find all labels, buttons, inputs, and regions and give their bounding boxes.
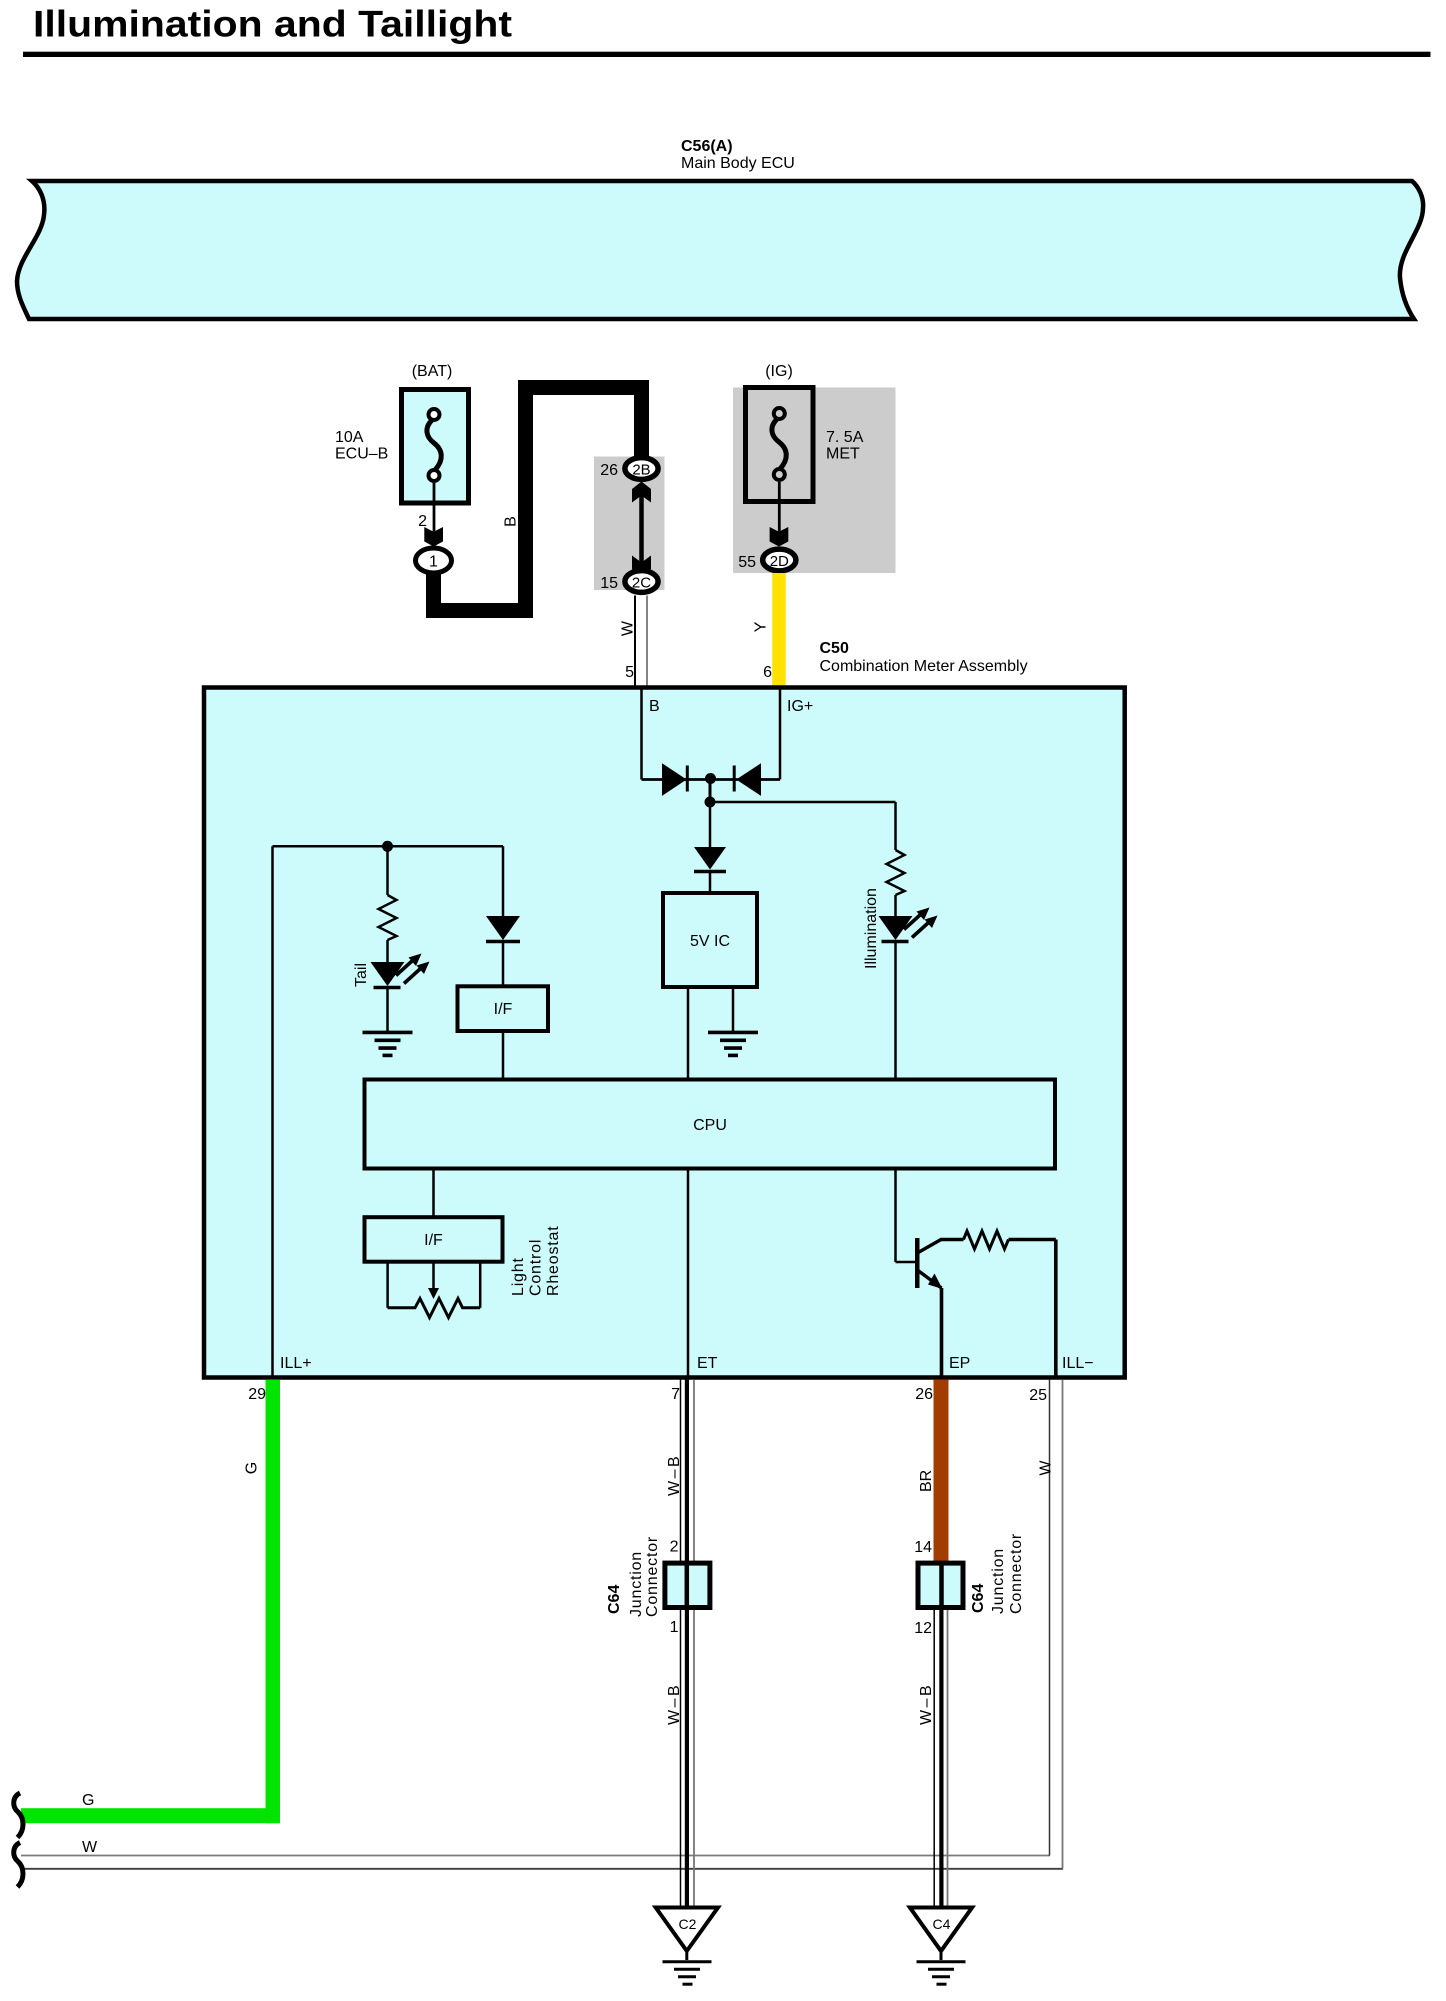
wire diode row	[642, 778, 781, 781]
wire down to D3	[709, 802, 712, 847]
svg-text:2D: 2D	[770, 553, 789, 570]
wire ET	[687, 1169, 690, 1378]
svg-text:1: 1	[429, 554, 438, 571]
thick wire B	[434, 388, 642, 611]
svg-text:2: 2	[670, 1539, 679, 1556]
svg-text:Junction: Junction	[990, 1548, 1007, 1614]
wire I/F to CPU	[502, 1031, 505, 1078]
wire CPU to I/F2	[432, 1169, 435, 1218]
node dot 2	[705, 797, 716, 808]
wire to diode D4	[502, 846, 505, 916]
rheostat legs	[386, 1262, 389, 1308]
ground G2	[363, 1032, 413, 1055]
svg-text:Tail: Tail	[353, 963, 370, 987]
svg-text:W–B: W–B	[666, 1683, 683, 1725]
illumination branch wire	[894, 802, 897, 850]
break brace W	[14, 1843, 23, 1888]
C50 Combination Meter Assembly box	[204, 688, 1125, 1378]
node dot tail	[382, 841, 393, 852]
transistor Q1 base wire	[894, 1169, 897, 1263]
connector 2C	[625, 571, 658, 593]
svg-text:(BAT): (BAT)	[412, 363, 453, 380]
svg-text:Control: Control	[528, 1239, 545, 1296]
node dot 1	[705, 773, 716, 784]
svg-text:Y: Y	[753, 621, 770, 632]
connector oval 1	[416, 548, 452, 573]
CPU box	[365, 1080, 1056, 1169]
svg-text:Connector: Connector	[1008, 1533, 1025, 1614]
inter-connector double arrow	[639, 490, 644, 569]
svg-text:C50: C50	[820, 640, 849, 657]
resistor collector	[964, 1231, 1009, 1249]
junction connector C64 left	[665, 1563, 710, 1607]
svg-text:26: 26	[915, 1386, 933, 1403]
wire W from pin 25	[1049, 1380, 1051, 1856]
svg-text:MET: MET	[826, 446, 860, 463]
svg-text:W: W	[82, 1839, 98, 1856]
ground C4	[910, 1908, 972, 1952]
svg-text:B: B	[503, 516, 520, 527]
svg-text:Combination Meter Assembly: Combination Meter Assembly	[820, 658, 1028, 675]
wire W-B to ground C4	[933, 1610, 935, 1906]
wire	[709, 779, 712, 802]
LED illumination	[879, 916, 913, 940]
wire to tail resistor	[386, 846, 389, 895]
svg-text:5: 5	[625, 664, 634, 681]
svg-text:Illumination and Taillight: Illumination and Taillight	[33, 4, 512, 45]
svg-text:G: G	[82, 1792, 94, 1809]
fuse 7.5A MET (IG) box	[746, 388, 864, 502]
svg-text:25: 25	[1029, 1387, 1047, 1404]
rheostat resistor	[388, 1299, 481, 1318]
svg-text:2: 2	[418, 513, 427, 530]
transistor Q1	[915, 1238, 920, 1288]
wire Y yellow	[772, 573, 786, 687]
connector 2B	[625, 458, 658, 480]
diode D4	[486, 916, 520, 940]
wire W bottom horizontal	[21, 1855, 1050, 1857]
svg-text:C56(A): C56(A)	[681, 138, 733, 155]
svg-text:Light: Light	[510, 1257, 527, 1296]
svg-text:14: 14	[914, 1539, 932, 1556]
svg-text:2C: 2C	[632, 575, 651, 592]
pin IG+ wire	[779, 689, 782, 780]
ground C2	[656, 1908, 718, 1952]
wire fuse to connector 1	[433, 482, 436, 534]
wire ILL-	[1054, 1240, 1058, 1378]
diode D1	[662, 763, 687, 796]
I/F box 1	[458, 986, 549, 1031]
junction connector C64 right	[918, 1563, 963, 1607]
wire EP	[940, 1288, 944, 1378]
rheostat arrow	[432, 1262, 435, 1290]
svg-text:C4: C4	[933, 1916, 951, 1932]
svg-text:B: B	[649, 698, 660, 715]
svg-text:C2: C2	[679, 1916, 697, 1932]
arrow down	[770, 527, 789, 547]
wire to illumination branch	[710, 801, 896, 804]
svg-text:W: W	[1038, 1460, 1055, 1476]
svg-text:7. 5A: 7. 5A	[826, 429, 864, 446]
svg-text:55: 55	[738, 554, 756, 571]
wire 5V IC to ground	[732, 987, 735, 1031]
fuse 10A ECU-B (BAT) box	[335, 363, 469, 503]
gray panel IG	[733, 388, 896, 574]
wire G green	[21, 1380, 273, 1809]
svg-text:Rheostat: Rheostat	[545, 1226, 562, 1296]
LED tail	[371, 962, 405, 986]
gray panel 2B/2C	[594, 457, 665, 591]
wire fuse to 2D	[778, 482, 781, 534]
svg-text:ECU–B: ECU–B	[335, 446, 388, 463]
diode D2	[736, 763, 761, 796]
svg-text:BR: BR	[918, 1470, 935, 1492]
wire W pin 5 (double line)	[634, 596, 636, 688]
ground G1	[708, 1032, 758, 1055]
diode D3	[694, 847, 726, 870]
svg-text:12: 12	[914, 1620, 932, 1637]
svg-text:EP: EP	[949, 1355, 970, 1372]
svg-text:I/F: I/F	[424, 1232, 443, 1249]
wire LED to ground	[386, 989, 389, 1031]
svg-text:2B: 2B	[632, 462, 650, 479]
svg-text:I/F: I/F	[494, 1001, 513, 1018]
ILL+ wire vertical	[271, 846, 274, 1377]
svg-text:6: 6	[763, 664, 772, 681]
I/F box 2	[365, 1217, 503, 1262]
svg-text:(IG): (IG)	[765, 363, 793, 380]
svg-text:C64: C64	[970, 1584, 987, 1613]
svg-text:15: 15	[600, 575, 618, 592]
svg-text:5V IC: 5V IC	[690, 933, 730, 950]
5V IC box	[663, 893, 757, 987]
wire BR brown	[934, 1380, 949, 1562]
svg-text:IG+: IG+	[787, 698, 813, 715]
svg-text:Junction: Junction	[628, 1551, 645, 1617]
resistor illumination	[887, 850, 905, 895]
title rule	[23, 52, 1431, 57]
wire W-B pin 7 to ground C2	[680, 1380, 682, 1906]
connector 2D	[763, 549, 796, 571]
svg-text:29: 29	[248, 1386, 266, 1403]
arrow down	[424, 527, 443, 547]
wire 5V IC to CPU	[687, 987, 690, 1078]
wire tail row	[273, 845, 504, 848]
svg-text:Connector: Connector	[644, 1536, 661, 1617]
break brace G	[14, 1793, 23, 1838]
pin B wire	[640, 689, 643, 780]
svg-text:W–B: W–B	[918, 1683, 935, 1725]
resistor tail	[379, 895, 397, 940]
harness band C56(A) Main Body ECU	[17, 181, 1423, 319]
svg-text:W–B: W–B	[666, 1454, 683, 1496]
svg-text:26: 26	[600, 462, 618, 479]
svg-text:CPU: CPU	[693, 1117, 727, 1134]
svg-text:10A: 10A	[335, 429, 364, 446]
svg-text:ET: ET	[697, 1355, 718, 1372]
svg-text:C64: C64	[606, 1585, 623, 1614]
svg-text:ILL+: ILL+	[280, 1355, 312, 1372]
svg-text:G: G	[244, 1462, 261, 1474]
wire LED to CPU	[894, 943, 897, 1078]
svg-text:ILL−: ILL−	[1062, 1355, 1094, 1372]
svg-text:Illumination: Illumination	[863, 888, 880, 969]
svg-text:W: W	[620, 620, 637, 636]
svg-text:7: 7	[671, 1386, 680, 1403]
svg-text:Main Body ECU: Main Body ECU	[681, 155, 795, 172]
svg-text:1: 1	[670, 1619, 679, 1636]
collector wire	[940, 1238, 964, 1241]
